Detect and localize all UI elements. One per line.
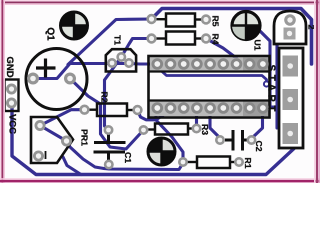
svg-text:R5: R5 [211,16,221,27]
svg-text:T1: T1 [113,35,123,45]
svg-text:C1: C1 [123,152,133,163]
svg-text:R1: R1 [243,158,253,169]
svg-text:R3: R3 [200,124,210,135]
svg-text:R2: R2 [100,92,110,103]
svg-text:PR1: PR1 [80,129,90,146]
svg-text:GND: GND [4,56,15,77]
svg-text:VCC: VCC [6,114,17,134]
svg-text:Q1: Q1 [44,27,55,41]
svg-text:U1: U1 [253,40,263,51]
svg-text:C2: C2 [254,141,264,152]
svg-text:R4: R4 [211,34,221,45]
